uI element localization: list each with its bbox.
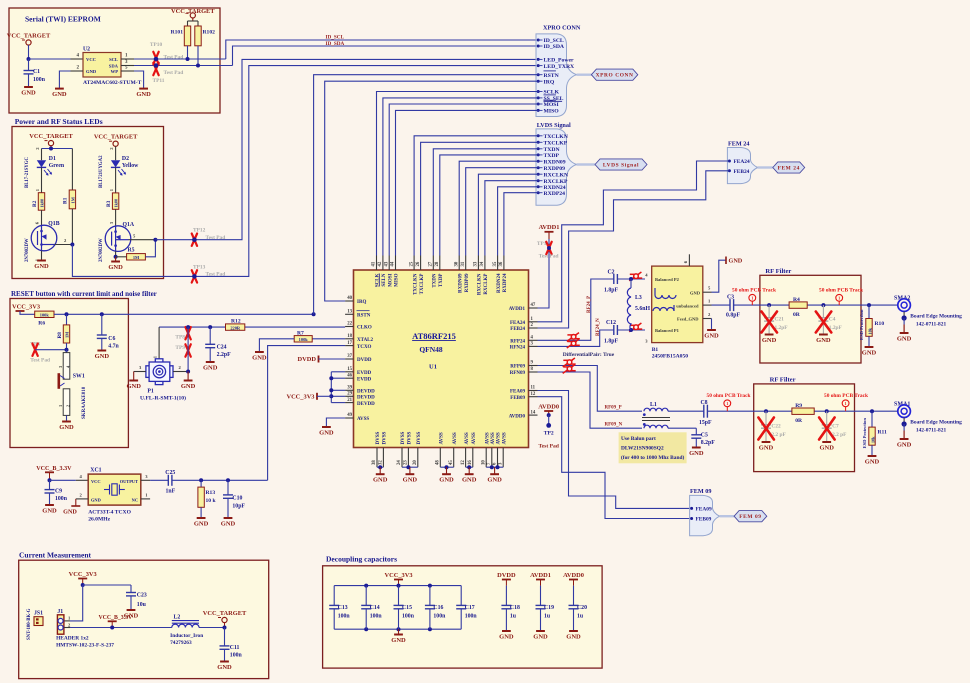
svg-text:TP10: TP10 <box>150 42 163 48</box>
svg-text:J1: J1 <box>57 609 63 615</box>
svg-text:VCC: VCC <box>91 479 101 484</box>
node C9/XC1 <box>48 478 52 482</box>
ground C18 <box>499 631 514 641</box>
balun B1 2450FB15A050 <box>645 254 711 359</box>
svg-text:GND: GND <box>865 459 880 466</box>
svg-text:R4: R4 <box>793 297 800 303</box>
svg-text:Current Measurement: Current Measurement <box>19 551 91 560</box>
svg-text:FEB24: FEB24 <box>510 327 525 332</box>
svg-text:JS1: JS1 <box>34 611 43 617</box>
svg-text:25: 25 <box>409 261 414 266</box>
capacitor C5 8.2pF <box>691 428 715 447</box>
wire RSTN net <box>54 313 314 315</box>
svg-text:AVDD1: AVDD1 <box>539 224 560 231</box>
wire ID_SCL <box>226 35 538 60</box>
power VCC_B_3.3V (TCXO) <box>36 466 72 480</box>
capacitor C10 10pF <box>223 480 245 517</box>
svg-text:1u: 1u <box>510 614 517 620</box>
svg-text:8.2pF: 8.2pF <box>701 440 715 446</box>
node C21 tap <box>767 303 771 307</box>
svg-text:LED_TXRX: LED_TXRX <box>544 64 576 70</box>
svg-text:GND: GND <box>762 337 777 344</box>
pin 46 EVDD (left) <box>345 373 371 382</box>
wire L1 bottom to C5 <box>668 427 696 429</box>
node Q1A drain junction <box>153 238 157 242</box>
svg-text:C21: C21 <box>775 317 785 323</box>
resistor R1 1M <box>63 149 76 245</box>
wire RXCLKP <box>485 181 538 256</box>
inductor L2 74279263 <box>170 615 203 646</box>
svg-text:42: 42 <box>378 261 383 266</box>
node XPRO RSTN <box>537 71 560 79</box>
svg-text:GND: GND <box>34 263 49 270</box>
wire RXCLKN <box>478 174 537 255</box>
testpad TP9 <box>175 344 190 356</box>
resistor R12 220R <box>226 318 245 330</box>
svg-text:RF09_P: RF09_P <box>605 406 622 411</box>
capacitor C22 2.2pF (DNP) <box>758 411 786 441</box>
capacitor C11 100n <box>220 628 243 662</box>
ground pin group <box>462 474 477 484</box>
wire R101/R102 tops <box>188 21 199 26</box>
svg-text:R11: R11 <box>878 430 888 436</box>
svg-text:GND: GND <box>816 337 831 344</box>
svg-text:RXDN24: RXDN24 <box>497 273 502 293</box>
diffpair marker RFP09 <box>563 358 576 367</box>
svg-text:FEM 09: FEM 09 <box>739 514 761 520</box>
pin 27 TXDN (top) <box>429 256 438 288</box>
eeprom U2 AT24MAC602-STUM-T <box>71 47 142 87</box>
svg-text:1: 1 <box>726 401 728 406</box>
svg-text:RF09_N: RF09_N <box>605 423 623 428</box>
node FEM24 FEB24 <box>728 169 750 175</box>
block RF Filter (2.4GHz) <box>760 268 861 363</box>
svg-text:100n: 100n <box>465 614 478 620</box>
svg-text:VCC_B_3.3V: VCC_B_3.3V <box>99 615 133 621</box>
node XPRO MOSI <box>537 100 560 108</box>
ground WP <box>136 89 151 99</box>
svg-text:Test Pad: Test Pad <box>538 444 559 450</box>
svg-text:50 ohm PCB Track: 50 ohm PCB Track <box>732 287 776 293</box>
svg-text:1M: 1M <box>65 331 70 338</box>
wire TP4 to switch <box>35 348 68 352</box>
svg-text:16: 16 <box>468 460 473 465</box>
svg-text:RFN24: RFN24 <box>510 346 526 351</box>
power VCC_3V3 (current meas) <box>69 571 97 585</box>
svg-text:VCC_3V3: VCC_3V3 <box>12 304 40 311</box>
svg-text:XTAL2: XTAL2 <box>357 338 374 343</box>
pin 36 RXDP24 (top) <box>499 256 508 293</box>
pin 38 DVSS (bottom) <box>372 431 381 467</box>
capacitor C19 1u <box>536 586 555 631</box>
svg-text:FEM 09: FEM 09 <box>690 488 711 495</box>
wire FEB24 <box>538 171 730 328</box>
wire FEA24 <box>538 161 730 322</box>
svg-text:SDA: SDA <box>109 64 119 69</box>
node LVDS RXDP24 <box>537 191 565 197</box>
ground R10 <box>862 347 877 357</box>
svg-text:Balanced P2: Balanced P2 <box>655 277 680 282</box>
wire RSTN to XPRO <box>312 75 538 317</box>
svg-text:1k00: 1k00 <box>114 199 119 208</box>
svg-text:R13: R13 <box>206 490 216 496</box>
wire balun gnd pin5 <box>712 260 727 292</box>
svg-text:R12: R12 <box>231 318 241 324</box>
svg-text:15: 15 <box>347 367 352 372</box>
svg-text:50 ohm PCB Track: 50 ohm PCB Track <box>824 393 868 399</box>
node C11 tap <box>223 626 227 630</box>
ground R13 <box>194 518 209 528</box>
svg-text:13: 13 <box>347 310 352 315</box>
svg-text:VCC_3V3: VCC_3V3 <box>384 572 412 579</box>
svg-text:GND: GND <box>59 424 74 431</box>
wire RXDP09 <box>466 168 538 256</box>
svg-text:U2: U2 <box>83 47 90 53</box>
wire VCC to J1 pin1 <box>64 585 83 621</box>
svg-text:Balanced P1: Balanced P1 <box>655 328 680 333</box>
pin 3 AVSS (bottom) <box>498 432 507 467</box>
capacitor C21 1.2pF (DNP) <box>762 305 789 334</box>
inductor L3 5.6nH <box>627 277 650 332</box>
power VCC_3V3 (decoupling) <box>384 572 412 586</box>
svg-text:GND: GND <box>439 477 454 484</box>
power DVDD (decoupling) <box>497 572 516 586</box>
svg-text:C11: C11 <box>230 645 240 651</box>
capacitor C16 100n <box>425 586 446 630</box>
svg-text:Test Pad: Test Pad <box>206 235 226 241</box>
svg-text:220R: 220R <box>230 326 241 331</box>
svg-text:R102: R102 <box>203 30 216 36</box>
testpad TP1 <box>537 241 559 260</box>
svg-text:RFN09: RFN09 <box>510 371 526 376</box>
svg-text:R2: R2 <box>32 200 38 207</box>
wire harness to tag <box>577 73 592 75</box>
svg-text:RF24_N: RF24_N <box>596 318 601 336</box>
node LVDS RXCLKP <box>537 179 568 185</box>
svg-text:12: 12 <box>531 392 536 397</box>
svg-text:AVSS: AVSS <box>357 417 369 422</box>
wire VCC distribution D1 <box>42 147 73 151</box>
pin 1 SCL <box>121 58 134 60</box>
capacitor C25 1nF <box>150 470 268 495</box>
block RESET button with current limit and noise filter <box>10 290 157 448</box>
pin 3 RFN24 (right) <box>510 342 538 351</box>
svg-text:SELN: SELN <box>382 273 387 286</box>
svg-text:GND: GND <box>499 634 514 641</box>
pin 2 FEB24 (right) <box>510 323 537 332</box>
capacitor C1 100n <box>24 59 46 87</box>
pin 47 AVDD1 (right) <box>509 303 538 312</box>
resistor R10 10k ESD <box>859 305 884 346</box>
pin 1 FEA24 (right) <box>510 317 538 326</box>
port VCC_B_3.3V (tap) <box>99 615 133 629</box>
svg-text:FEB09: FEB09 <box>696 517 712 523</box>
resistor R11 10k ESD <box>862 411 887 455</box>
resistor R101 <box>171 26 191 46</box>
svg-text:WP: WP <box>111 69 119 74</box>
node XPRO ID_SCL <box>537 38 564 44</box>
svg-text:38: 38 <box>372 460 377 465</box>
svg-text:AVSS: AVSS <box>497 432 502 444</box>
testpad TP4 <box>30 342 50 364</box>
svg-text:GND: GND <box>897 442 912 449</box>
svg-text:TXCLKP: TXCLKP <box>420 274 425 295</box>
connector SMA2 <box>894 295 962 327</box>
power AVDD1 (decoupling) <box>530 572 551 586</box>
svg-text:DEVDD: DEVDD <box>357 402 375 407</box>
node XPRO IRQ <box>537 79 555 85</box>
node SCL/VCC junction <box>27 57 31 61</box>
resistor R5 1M <box>116 240 156 261</box>
power VCC_TARGET (EEPROM left) <box>7 33 51 46</box>
testpad TP2 <box>538 415 559 450</box>
svg-text:C15: C15 <box>402 605 412 611</box>
svg-text:C10: C10 <box>232 496 242 502</box>
node C7 tap <box>825 409 829 413</box>
node LVDS TXDP <box>537 153 560 159</box>
svg-text:41: 41 <box>372 261 377 266</box>
svg-text:10u: 10u <box>137 602 147 608</box>
wire AVDD1 to pin47 <box>538 239 550 308</box>
wire unbalanced to C3 <box>712 304 731 306</box>
svg-text:C16: C16 <box>433 605 443 611</box>
pin 25 TXCLKN (top) <box>409 256 418 295</box>
svg-text:43: 43 <box>384 261 389 266</box>
capacitor C23 10u <box>126 593 147 610</box>
capacitor C20 1u <box>569 586 588 631</box>
svg-text:1u: 1u <box>577 614 584 620</box>
svg-text:100n: 100n <box>402 614 415 620</box>
diffpair marker RFN24 <box>567 339 580 348</box>
pin 41 SCLK (top) <box>372 256 381 288</box>
pin 34 RXCLKP (top) <box>480 256 489 295</box>
transistor Q1B 2N7002DW <box>25 210 72 262</box>
svg-text:Power and RF Status LEDs: Power and RF Status LEDs <box>15 117 103 126</box>
svg-text:GND: GND <box>52 91 67 98</box>
wire harness to tag FEM24 <box>758 166 773 168</box>
svg-text:37: 37 <box>347 354 352 359</box>
svg-text:GND: GND <box>487 477 502 484</box>
svg-text:RXCLKP: RXCLKP <box>544 179 569 185</box>
svg-text:23: 23 <box>404 460 409 465</box>
wire AVSS pin49 <box>326 418 345 427</box>
capacitor C6 4.7n <box>97 314 120 350</box>
svg-text:0.8pF: 0.8pF <box>726 313 740 319</box>
pin 15 EVDD (left) <box>345 367 371 376</box>
svg-text:10pF: 10pF <box>232 503 245 509</box>
svg-text:1M: 1M <box>133 255 140 260</box>
svg-text:33: 33 <box>474 261 479 266</box>
pin 33 RXCLKN (top) <box>474 256 483 296</box>
node LVDS TXDN <box>537 147 561 153</box>
wire R102 to SDA <box>196 46 200 68</box>
pin 35 RXDN24 (top) <box>493 256 502 293</box>
wire DVSS/AVSS group bus <box>402 465 418 474</box>
svg-text:39: 39 <box>347 386 352 391</box>
svg-text:OUTPUT: OUTPUT <box>120 479 138 484</box>
svg-text:GND: GND <box>95 353 110 360</box>
svg-text:10: 10 <box>481 460 486 465</box>
svg-text:R3: R3 <box>106 200 112 207</box>
wire TXDP <box>440 155 538 256</box>
svg-text:1: 1 <box>751 296 753 301</box>
svg-text:AVDD1: AVDD1 <box>530 572 551 579</box>
node LVDS TXCLKP <box>537 141 568 147</box>
pin 11 FEA09 (right) <box>510 386 538 395</box>
capacitor C12 1.8pF <box>604 320 618 345</box>
svg-text:44: 44 <box>391 261 396 266</box>
svg-text:RXCLKP: RXCLKP <box>484 274 489 295</box>
svg-text:GND: GND <box>462 477 477 484</box>
svg-text:MISO: MISO <box>544 109 560 115</box>
svg-text:47: 47 <box>531 303 536 308</box>
svg-text:ID_SCL: ID_SCL <box>326 35 345 41</box>
resistor R8 1M <box>57 314 70 349</box>
pin 40 IRQ (left) <box>345 296 366 305</box>
svg-text:TXCLKN: TXCLKN <box>544 134 569 140</box>
svg-text:R101: R101 <box>171 30 184 36</box>
svg-text:VCC_3V3: VCC_3V3 <box>69 571 97 578</box>
pin 43 MOSI (top) <box>384 256 393 287</box>
svg-text:DEVDD: DEVDD <box>357 396 375 401</box>
svg-text:VCC: VCC <box>86 57 96 62</box>
ground Q1A <box>108 262 123 272</box>
ground pin group <box>439 474 454 484</box>
svg-text:VCC_TARGET: VCC_TARGET <box>94 134 138 141</box>
label RF09_P <box>605 406 622 411</box>
svg-text:1M: 1M <box>71 196 76 203</box>
wire FEB09 <box>538 397 692 519</box>
svg-text:Board Edge Mounting: Board Edge Mounting <box>910 419 962 425</box>
node LVDS RXDP09 <box>537 166 565 172</box>
svg-text:GND: GND <box>862 350 877 357</box>
wire DVSS/AVSS group bus <box>377 465 383 474</box>
svg-text:28: 28 <box>435 261 440 266</box>
note balun part <box>619 432 687 463</box>
block Power and RF Status LEDs <box>12 117 164 279</box>
svg-text:EVDD: EVDD <box>357 371 372 376</box>
capacitor C4 1.2pF (DNP) <box>816 305 843 334</box>
svg-text:GND: GND <box>373 477 388 484</box>
ground C23 <box>124 610 139 620</box>
capacitor C17 100n <box>456 586 477 630</box>
node Q1B drain / R1 <box>70 243 74 247</box>
node XPRO SS_SEL <box>537 96 564 102</box>
label RF24_P <box>587 296 592 313</box>
svg-text:1.8pF: 1.8pF <box>604 339 618 345</box>
ground SMA2 <box>897 318 912 343</box>
node XPRO ID_SDA <box>537 44 565 50</box>
wire CLKO net <box>159 326 345 328</box>
svg-text:100n: 100n <box>370 614 383 620</box>
svg-text:GND: GND <box>704 333 719 340</box>
transistor Q1A 2N7002DW <box>99 209 155 262</box>
capacitor C9 100n <box>45 480 68 504</box>
wire SDA line <box>134 65 233 67</box>
node VCC branch <box>81 583 85 587</box>
connector XPRO CONN harness <box>536 25 581 117</box>
svg-text:D2: D2 <box>122 156 129 162</box>
node C24 tap <box>208 325 212 329</box>
svg-text:1: 1 <box>838 296 840 301</box>
wire C8 to SMA1 <box>707 410 897 412</box>
pin 22 CLKO (left) <box>345 322 372 331</box>
wire RXDN24 <box>498 187 538 256</box>
ground P1 pin3 <box>126 372 141 391</box>
svg-text:IRQ: IRQ <box>544 79 555 85</box>
label RF24_N <box>596 318 601 336</box>
svg-text:L1: L1 <box>650 402 657 408</box>
node LVDS RXCLKN <box>537 172 569 178</box>
svg-text:C1: C1 <box>33 69 40 75</box>
svg-text:Test Pad: Test Pad <box>206 272 226 278</box>
svg-text:C7: C7 <box>832 424 839 430</box>
wire harness to tag FEM09 <box>720 515 735 517</box>
svg-text:TXCLKN: TXCLKN <box>413 273 418 295</box>
svg-text:2N7002DW: 2N7002DW <box>99 238 104 262</box>
svg-text:FEA24: FEA24 <box>510 321 526 326</box>
diffpair marker at C2 <box>629 272 642 281</box>
svg-text:142-0711-821: 142-0711-821 <box>916 321 947 327</box>
svg-text:GND: GND <box>21 90 36 97</box>
wire L1 top to C8 <box>668 410 704 412</box>
svg-text:GND: GND <box>252 355 267 362</box>
svg-text:FEA09: FEA09 <box>510 390 526 395</box>
ground pin group <box>487 474 502 484</box>
svg-text:C12: C12 <box>606 320 616 326</box>
wire FEA09 <box>538 391 692 509</box>
svg-text:TP2: TP2 <box>544 431 554 437</box>
wire C3 to SMA2 <box>734 304 898 306</box>
svg-text:MISO: MISO <box>395 273 400 286</box>
svg-text:5.6nH: 5.6nH <box>635 306 650 312</box>
svg-text:EVDD: EVDD <box>357 377 372 382</box>
svg-text:(for 400 to 1000 Mhz Band): (for 400 to 1000 Mhz Band) <box>621 454 684 461</box>
port VCC_3V3 (DEVDD) <box>286 393 331 401</box>
svg-text:AVSS: AVSS <box>465 432 470 444</box>
svg-text:10 k: 10 k <box>206 498 217 504</box>
svg-text:VCC_3V3: VCC_3V3 <box>286 394 314 401</box>
svg-text:RXDN09: RXDN09 <box>544 159 566 165</box>
svg-text:TCXO: TCXO <box>357 345 372 350</box>
svg-text:2: 2 <box>66 405 71 407</box>
pin 9 RFP09 (right) <box>510 361 537 370</box>
ground C4 <box>816 335 831 345</box>
svg-text:RF24_P: RF24_P <box>587 296 592 313</box>
pin 28 TXDP (top) <box>435 256 444 288</box>
ground C24 <box>203 362 218 372</box>
svg-text:DVDD: DVDD <box>298 356 317 363</box>
svg-text:1k00: 1k00 <box>40 199 45 208</box>
resistor R13 10k <box>198 480 217 517</box>
pin 20 DVSS (bottom) <box>413 431 422 467</box>
node XPRO LED_TXRX <box>537 64 575 70</box>
svg-text:15pF: 15pF <box>699 420 712 426</box>
node XPRO MISO <box>537 109 560 115</box>
svg-text:GND: GND <box>690 290 701 295</box>
wire RXDP24 <box>504 193 538 256</box>
ground R7 <box>252 352 267 362</box>
svg-text:HEADER 1x2: HEADER 1x2 <box>56 636 89 642</box>
svg-text:TP12: TP12 <box>193 228 206 234</box>
pin 6 AVSS (bottom) <box>493 432 502 467</box>
svg-text:FEA09: FEA09 <box>696 507 712 513</box>
node P1 pin2 <box>186 370 190 374</box>
ground C20 <box>566 631 581 641</box>
svg-text:GND: GND <box>221 521 236 528</box>
svg-text:C14: C14 <box>370 605 380 611</box>
svg-text:C3: C3 <box>727 294 734 300</box>
